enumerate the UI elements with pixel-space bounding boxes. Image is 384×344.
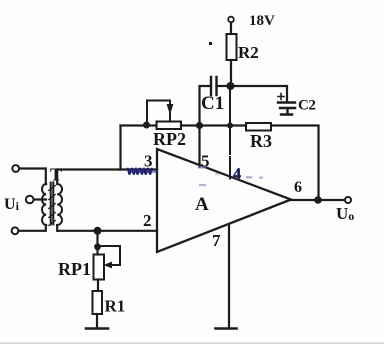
input terminal bottom [12, 227, 19, 234]
wire pin3 riser to feedback row [119, 126, 121, 170]
wire pin3 row from transformer [58, 168, 157, 170]
transformer primary winding [42, 184, 46, 225]
svg-text:T: T [50, 165, 62, 185]
svg-text:RP1: RP1 [58, 259, 91, 279]
svg-text:Uo: Uo [336, 204, 354, 223]
node B junction [227, 82, 235, 90]
wire pin2 row from transformer [58, 230, 157, 232]
potentiometer RP2 body [157, 122, 182, 130]
wire pin2 node down to RP1 [96, 231, 98, 255]
capacitor C1 [211, 77, 217, 95]
svg-text:R3: R3 [250, 131, 272, 151]
node RP1 top junction [94, 227, 102, 235]
node RP1 wiper junction [94, 243, 101, 250]
wire op-amp output pin 6 [291, 199, 345, 201]
svg-text:RP2: RP2 [153, 129, 186, 149]
svg-text:R1: R1 [105, 297, 126, 316]
svg-text:4: 4 [233, 166, 241, 183]
capacitor C2 [278, 103, 295, 115]
wire R1 to ground [96, 314, 98, 329]
input terminal top [12, 165, 19, 172]
wire node B to C1 [218, 85, 227, 87]
svg-text:R2: R2 [238, 43, 259, 62]
node RP2 wiper junction [143, 122, 150, 129]
wire R3 to output column [271, 126, 319, 200]
power terminal +18V [228, 17, 234, 23]
ground bar below R1 [86, 327, 108, 330]
wire feedback row left segment [121, 124, 157, 126]
watermark smudge under www [128, 170, 158, 174]
output terminal Uo [345, 197, 351, 203]
RP1 wiper arrowhead [104, 262, 113, 269]
input terminal Ui [26, 196, 34, 204]
svg-text:6: 6 [294, 179, 302, 196]
wire Ui tap [34, 198, 46, 200]
RP2 wiper arrowhead [167, 104, 174, 115]
wire top terminal to primary [19, 169, 46, 185]
wire secondary top lead [56, 170, 58, 185]
wire feedback row middle segment [181, 124, 246, 126]
transformer secondary winding [57, 184, 62, 225]
bottom scan edge [0, 342, 384, 344]
wire secondary bottom lead [56, 225, 58, 231]
wire RP1 to R1 [97, 280, 99, 292]
svg-text:A: A [195, 194, 209, 215]
wire pin 7 to ground [228, 224, 230, 329]
plus sign of C2 [278, 94, 284, 100]
wire R2 to node B [230, 60, 232, 86]
op-amp A triangle [157, 149, 291, 252]
wire bottom terminal to primary [19, 225, 46, 231]
node pin4 row crossing [227, 123, 233, 129]
resistor R3 [246, 123, 271, 131]
wire pin 4 [229, 90, 231, 179]
wire 18V terminal to R2 [230, 23, 232, 35]
resistor R1 [93, 291, 103, 314]
svg-text:7: 7 [212, 231, 221, 250]
core hatch ticks [49, 186, 55, 226]
potentiometer RP1 body [94, 255, 105, 280]
svg-text:Ui: Ui [4, 196, 20, 213]
node pin5 junction [196, 122, 203, 129]
resistor R2 [227, 34, 237, 60]
watermark specks [198, 166, 263, 186]
stray speck near R2 [209, 42, 212, 45]
wire C1 left plate to pin5 column [200, 86, 212, 126]
RP2 wiper loop wire [147, 101, 170, 125]
node output junction [314, 196, 322, 204]
transformer core [51, 183, 54, 225]
wire pin 5 [198, 126, 200, 168]
svg-text:18V: 18V [249, 13, 275, 29]
svg-text:C1: C1 [201, 93, 224, 114]
svg-text:C2: C2 [298, 98, 315, 114]
RP1 wiper loop wire [98, 246, 121, 265]
wire node B to C2 [234, 86, 287, 101]
svg-text:2: 2 [143, 211, 152, 230]
ground bar below pin 7 [216, 327, 237, 330]
